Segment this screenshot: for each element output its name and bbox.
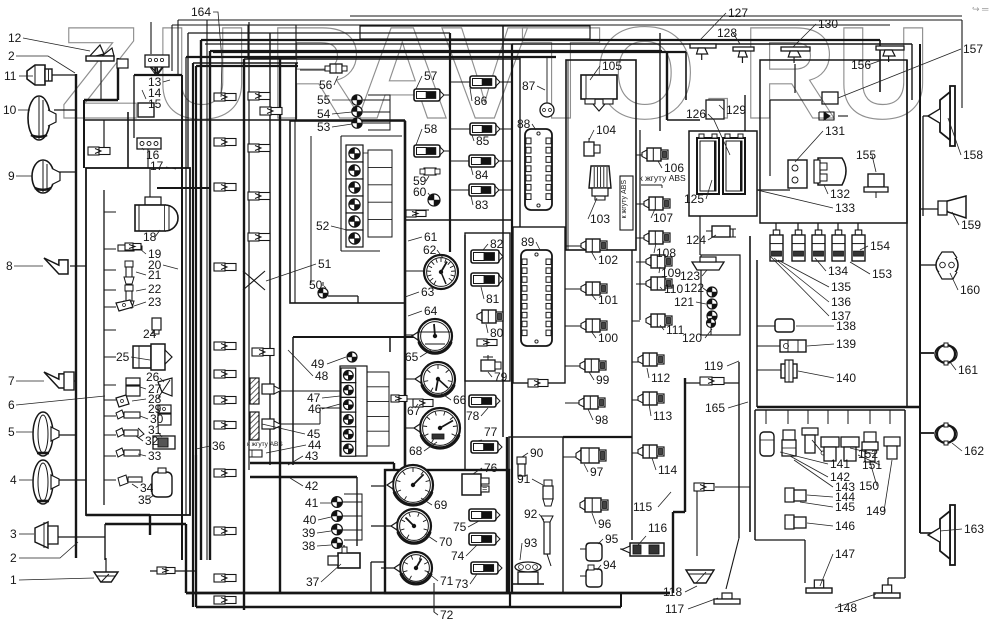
connector bbox=[248, 144, 270, 152]
svg-text:8: 8 bbox=[6, 259, 13, 273]
label 134 bbox=[815, 258, 848, 278]
svg-text:160: 160 bbox=[960, 283, 980, 297]
lamp 50 bbox=[318, 282, 328, 298]
gauge 70 bbox=[391, 509, 431, 543]
svg-text:146: 146 bbox=[835, 519, 855, 533]
label 47 bbox=[307, 391, 340, 405]
label 113 bbox=[649, 404, 672, 423]
label 117 bbox=[665, 598, 718, 616]
label 38 bbox=[302, 539, 331, 553]
connector 16 bbox=[137, 138, 161, 149]
svg-text:94: 94 bbox=[603, 558, 617, 572]
label 76 bbox=[473, 461, 498, 475]
label 140 bbox=[798, 371, 856, 385]
svg-text:56: 56 bbox=[319, 78, 333, 92]
sensor 143 bbox=[802, 428, 825, 455]
svg-text:48: 48 bbox=[315, 369, 329, 383]
label 18 bbox=[143, 230, 160, 244]
label 116 bbox=[638, 521, 667, 545]
switch 73 bbox=[471, 562, 502, 574]
label 24 bbox=[143, 327, 157, 341]
relay 119 fuse bbox=[700, 377, 724, 385]
connector 162 bbox=[935, 423, 957, 445]
label 55 bbox=[317, 93, 352, 107]
gauge 71 bbox=[394, 552, 432, 584]
label 124 bbox=[686, 233, 716, 247]
lamp 60 bbox=[428, 194, 440, 206]
label 46 bbox=[308, 402, 340, 416]
washer jet bbox=[733, 47, 754, 63]
lamp 12 bbox=[86, 45, 114, 75]
svg-text:12: 12 bbox=[8, 31, 22, 45]
fuse bbox=[528, 379, 548, 387]
svg-text:57: 57 bbox=[424, 69, 438, 83]
connector bbox=[214, 93, 236, 101]
label 97 bbox=[584, 464, 604, 479]
switch 85 bbox=[470, 123, 500, 135]
fuse 1 bbox=[792, 230, 805, 261]
label 73 bbox=[455, 574, 477, 591]
svg-text:159: 159 bbox=[961, 218, 981, 232]
label 61 bbox=[408, 230, 438, 244]
svg-text:96: 96 bbox=[598, 517, 612, 531]
fuse 3 bbox=[832, 230, 845, 261]
svg-text:25: 25 bbox=[116, 350, 130, 364]
switch 30 bbox=[116, 410, 140, 419]
svg-text:117: 117 bbox=[665, 602, 684, 616]
svg-text:99: 99 bbox=[596, 373, 610, 387]
label 118 bbox=[663, 585, 697, 599]
label 70 bbox=[425, 534, 453, 549]
sensor 114 bbox=[638, 445, 664, 458]
svg-text:9: 9 bbox=[8, 169, 15, 183]
label 127 bbox=[700, 6, 748, 40]
gauge 68 speedometer bbox=[414, 408, 460, 448]
battery 125b bbox=[723, 134, 745, 194]
svg-text:132: 132 bbox=[830, 187, 850, 201]
svg-text:к жгуту ABS: к жгуту ABS bbox=[639, 173, 686, 183]
svg-text:156: 156 bbox=[851, 58, 871, 72]
relay 15 bbox=[138, 103, 154, 117]
label 40 bbox=[303, 513, 331, 527]
svg-text:4: 4 bbox=[10, 473, 17, 487]
label 130 bbox=[793, 17, 838, 47]
svg-text:75: 75 bbox=[453, 520, 467, 534]
svg-text:53: 53 bbox=[317, 120, 331, 134]
hatched connector 45 bbox=[250, 412, 280, 440]
label 159 bbox=[952, 212, 981, 232]
svg-text:149: 149 bbox=[866, 504, 886, 518]
label 91 bbox=[517, 472, 543, 486]
sensor 91 bbox=[543, 480, 553, 506]
plug 3 bbox=[35, 522, 58, 548]
label 29 bbox=[148, 402, 162, 416]
unit 105 bbox=[581, 75, 617, 111]
label 67 bbox=[407, 404, 421, 418]
svg-text:130: 130 bbox=[818, 17, 838, 31]
switch 82 bbox=[471, 250, 503, 263]
svg-text:47: 47 bbox=[307, 391, 321, 405]
label 145 bbox=[800, 500, 855, 514]
switch 84 bbox=[469, 155, 499, 167]
sensor 80 bbox=[477, 306, 503, 323]
relay 131 bbox=[788, 160, 807, 188]
motor 132 bbox=[814, 158, 846, 185]
pump 25 bbox=[133, 344, 172, 370]
svg-text:162: 162 bbox=[964, 444, 984, 458]
svg-text:6: 6 bbox=[8, 398, 15, 412]
svg-text:127: 127 bbox=[728, 6, 748, 20]
fuse 67b bbox=[413, 399, 433, 407]
switch 75 bbox=[469, 509, 500, 521]
label 108 bbox=[654, 243, 676, 260]
ABS connector 44 bbox=[247, 441, 283, 457]
label 121 bbox=[674, 295, 706, 309]
svg-text:102: 102 bbox=[598, 253, 618, 267]
reservoir 35 bbox=[152, 468, 172, 497]
sensor 152 bbox=[841, 437, 859, 461]
hatched connector 47 bbox=[250, 378, 280, 404]
sensor 108 bbox=[644, 231, 670, 244]
label 52 bbox=[316, 219, 347, 233]
label 151 bbox=[858, 455, 882, 472]
svg-text:79: 79 bbox=[494, 370, 508, 384]
svg-text:93: 93 bbox=[524, 536, 538, 550]
label 92 bbox=[524, 507, 544, 521]
svg-text:141: 141 bbox=[830, 457, 850, 471]
svg-text:90: 90 bbox=[530, 446, 544, 460]
svg-text:52: 52 bbox=[316, 219, 330, 233]
connector bbox=[214, 263, 236, 271]
connector bbox=[214, 342, 236, 350]
sensor 107 bbox=[644, 197, 670, 210]
label 78 bbox=[466, 408, 488, 423]
label 98 bbox=[588, 409, 609, 427]
svg-text:148: 148 bbox=[837, 601, 857, 615]
svg-text:54: 54 bbox=[317, 107, 331, 121]
battery 125a bbox=[697, 134, 719, 194]
svg-text:U: U bbox=[155, 0, 250, 146]
label 64 bbox=[408, 304, 438, 318]
watermark ZURAVTO.RU bbox=[60, 0, 931, 146]
label 49 bbox=[311, 357, 346, 371]
label 60 bbox=[413, 185, 431, 199]
speaker 163 bbox=[928, 505, 955, 565]
svg-text:к жгуту ABS: к жгуту ABS bbox=[247, 441, 283, 448]
label 99 bbox=[589, 372, 610, 387]
fuse 0 bbox=[770, 230, 783, 261]
gauge 65 ammeter bbox=[412, 319, 452, 353]
sensor 104 bbox=[584, 138, 600, 156]
svg-text:49: 49 bbox=[311, 357, 325, 371]
label 35 bbox=[138, 493, 154, 507]
fuse bbox=[694, 483, 714, 491]
label 125 bbox=[684, 180, 712, 206]
horn 159 bbox=[938, 196, 966, 218]
svg-text:155: 155 bbox=[856, 148, 876, 162]
connector bbox=[477, 339, 497, 346]
label 157 bbox=[838, 42, 983, 98]
speaker 158 bbox=[928, 86, 955, 146]
label 93 bbox=[520, 536, 538, 560]
label 87 bbox=[522, 79, 545, 93]
switch 81 bbox=[471, 273, 503, 286]
label 45 bbox=[262, 424, 321, 441]
svg-text:110: 110 bbox=[664, 282, 683, 296]
label 43 bbox=[288, 449, 319, 465]
label 81 bbox=[481, 287, 500, 306]
connector strip 88 bbox=[525, 129, 552, 210]
switch 57 bbox=[414, 89, 444, 101]
svg-text:154: 154 bbox=[870, 239, 890, 253]
label 139 bbox=[807, 337, 856, 351]
label 89 bbox=[521, 235, 540, 250]
svg-text:42: 42 bbox=[305, 479, 319, 493]
svg-text:119: 119 bbox=[704, 359, 723, 373]
label 57 bbox=[416, 69, 438, 89]
connector bbox=[248, 192, 270, 200]
label 107 bbox=[651, 209, 673, 225]
svg-text:86: 86 bbox=[474, 94, 488, 108]
connector bbox=[214, 574, 236, 582]
module 95 bbox=[580, 543, 602, 561]
label 19 bbox=[140, 247, 162, 261]
sensor 22 bbox=[124, 285, 134, 308]
label 95 bbox=[598, 532, 619, 546]
label 148 bbox=[835, 594, 876, 615]
svg-text:118: 118 bbox=[663, 585, 682, 599]
svg-text:☰: ☰ bbox=[482, 487, 487, 494]
svg-text:157: 157 bbox=[963, 42, 983, 56]
pump 93 bbox=[512, 562, 544, 584]
sensor 149 bbox=[884, 437, 900, 459]
label 106 bbox=[658, 161, 684, 175]
label 150 bbox=[859, 462, 879, 493]
label 10 bbox=[3, 103, 30, 117]
svg-text:91: 91 bbox=[517, 472, 531, 486]
label 147 bbox=[820, 547, 855, 586]
ground 148 bbox=[874, 585, 900, 598]
svg-text:120: 120 bbox=[682, 331, 702, 345]
svg-text:33: 33 bbox=[148, 449, 162, 463]
connector 160 bbox=[936, 252, 958, 279]
connector bbox=[252, 348, 274, 356]
switch 83 bbox=[469, 184, 499, 196]
svg-text:108: 108 bbox=[656, 246, 676, 260]
label 33 bbox=[138, 449, 162, 463]
svg-text:5: 5 bbox=[8, 425, 15, 439]
label 132 bbox=[824, 185, 850, 201]
switch 77 bbox=[471, 441, 502, 453]
switch 24 bbox=[152, 318, 161, 334]
svg-text:114: 114 bbox=[658, 463, 677, 477]
lamp bbox=[707, 311, 717, 321]
svg-text:39: 39 bbox=[302, 526, 316, 540]
label 36 bbox=[196, 439, 226, 453]
label 54 bbox=[317, 107, 352, 121]
label 80 bbox=[486, 324, 504, 340]
svg-text:139: 139 bbox=[836, 337, 856, 351]
sensor 112 bbox=[638, 353, 664, 366]
label 136 bbox=[774, 258, 851, 309]
label 79 bbox=[488, 370, 508, 384]
svg-text:73: 73 bbox=[455, 577, 469, 591]
svg-text:104: 104 bbox=[596, 123, 616, 137]
label 1 bbox=[10, 573, 94, 587]
label 20 bbox=[148, 258, 178, 272]
relay 31 bbox=[153, 436, 175, 449]
label 58 bbox=[416, 122, 438, 145]
label 26 bbox=[146, 370, 164, 384]
sensor 21 bbox=[124, 261, 134, 284]
svg-text:165: 165 bbox=[705, 401, 725, 415]
fuse 19 bbox=[118, 245, 142, 251]
svg-text:98: 98 bbox=[595, 413, 609, 427]
label 122 bbox=[684, 281, 707, 295]
svg-text:84: 84 bbox=[475, 168, 489, 182]
label 44 bbox=[266, 438, 322, 453]
headlamp 10 bbox=[28, 96, 56, 140]
svg-text:50: 50 bbox=[309, 278, 323, 292]
label 83 bbox=[471, 196, 489, 212]
svg-text:72: 72 bbox=[440, 608, 454, 622]
sensor 142 bbox=[782, 430, 796, 456]
label 155 bbox=[856, 148, 876, 172]
connector bbox=[125, 243, 141, 250]
sensor 113 bbox=[638, 392, 664, 405]
fuse 4 bbox=[852, 230, 865, 261]
lamp cluster 38-41 bbox=[332, 494, 362, 548]
label 96 bbox=[592, 513, 612, 531]
sensor 79 bbox=[481, 355, 501, 371]
sensor 116 bbox=[622, 543, 664, 556]
svg-text:2: 2 bbox=[8, 49, 15, 63]
gauge 62 voltmeter bbox=[424, 255, 458, 289]
svg-text:71: 71 bbox=[440, 574, 454, 588]
lamp 55 bbox=[352, 95, 362, 105]
svg-text:136: 136 bbox=[831, 295, 851, 309]
svg-text:77: 77 bbox=[484, 425, 498, 439]
sensor 124 bbox=[706, 226, 736, 237]
svg-text:92: 92 bbox=[524, 507, 538, 521]
svg-text:36: 36 bbox=[212, 439, 226, 453]
label 138 bbox=[796, 319, 856, 333]
svg-text:134: 134 bbox=[828, 264, 848, 278]
connector bbox=[157, 567, 175, 574]
connector bbox=[214, 370, 236, 378]
canister 27 bbox=[126, 378, 140, 396]
label 84 bbox=[471, 167, 489, 182]
svg-text:76: 76 bbox=[484, 461, 498, 475]
label 90 bbox=[522, 446, 544, 460]
svg-text:105: 105 bbox=[602, 59, 622, 73]
label 154 bbox=[860, 239, 890, 253]
label 153 bbox=[850, 262, 892, 281]
label 5 bbox=[8, 425, 33, 439]
connector bbox=[214, 183, 236, 191]
relay 140 bbox=[781, 360, 797, 382]
label 41 bbox=[305, 496, 331, 510]
sensor 100 bbox=[581, 319, 607, 332]
canister 29 bbox=[158, 405, 171, 425]
label 86 bbox=[470, 88, 488, 108]
sensor 120 bbox=[707, 319, 716, 336]
sensor 150 bbox=[862, 432, 878, 462]
svg-text:109: 109 bbox=[661, 266, 681, 280]
label 129 bbox=[719, 103, 746, 117]
relay 129 bbox=[706, 100, 724, 119]
sensor 90 bbox=[517, 457, 526, 476]
label 131 bbox=[795, 124, 845, 162]
switch 32 bbox=[116, 428, 144, 438]
label 56 bbox=[319, 76, 338, 92]
svg-text:161: 161 bbox=[958, 363, 978, 377]
label 164 bbox=[191, 5, 222, 97]
svg-text:.: . bbox=[700, 0, 736, 146]
label 156 bbox=[851, 58, 882, 72]
svg-text:55: 55 bbox=[317, 93, 331, 107]
svg-text:153: 153 bbox=[872, 267, 892, 281]
label 7 bbox=[8, 374, 44, 388]
sensor 99 bbox=[580, 359, 606, 372]
svg-text:23: 23 bbox=[148, 295, 162, 309]
svg-text:66: 66 bbox=[453, 393, 467, 407]
sensor 103 bbox=[589, 166, 611, 200]
svg-text:35: 35 bbox=[138, 493, 152, 507]
fuse 59 bbox=[420, 168, 440, 175]
sensor 144 145 bbox=[785, 488, 806, 502]
svg-text:↪ ═: ↪ ═ bbox=[972, 4, 989, 14]
label 71 bbox=[427, 572, 454, 588]
fuse 56 bbox=[325, 64, 347, 73]
svg-text:37: 37 bbox=[306, 575, 320, 589]
label 88 bbox=[517, 117, 536, 131]
svg-text:18: 18 bbox=[143, 230, 157, 244]
valve 28 bbox=[116, 395, 129, 407]
washer jet 128 bbox=[690, 44, 716, 60]
svg-text:126: 126 bbox=[686, 107, 706, 121]
connector bbox=[248, 92, 270, 100]
label 158 bbox=[948, 118, 983, 162]
svg-text:10: 10 bbox=[3, 103, 17, 117]
ground 1 bbox=[94, 572, 118, 582]
connector bbox=[214, 469, 236, 477]
svg-text:81: 81 bbox=[486, 292, 500, 306]
label 31 bbox=[148, 423, 162, 437]
svg-text:158: 158 bbox=[963, 148, 983, 162]
label 59 bbox=[413, 174, 429, 188]
label 109 bbox=[659, 266, 681, 280]
sensor 96 bbox=[580, 498, 608, 512]
label 105 bbox=[590, 59, 622, 80]
svg-text:24: 24 bbox=[143, 327, 157, 341]
relay 155 bbox=[864, 174, 888, 198]
label 4 bbox=[10, 473, 33, 487]
label 120 bbox=[682, 329, 712, 345]
label 30 bbox=[140, 412, 164, 426]
gauge 66 bbox=[415, 362, 455, 396]
svg-text:112: 112 bbox=[651, 371, 670, 385]
relay 138 bbox=[775, 319, 794, 332]
connector 87 bbox=[540, 57, 554, 117]
label 62 bbox=[423, 243, 443, 258]
svg-text:2: 2 bbox=[10, 551, 17, 565]
relay block 52 bbox=[346, 145, 392, 247]
horn 8 bbox=[44, 258, 68, 274]
label 17 bbox=[150, 159, 176, 173]
sensor 98 bbox=[579, 396, 605, 409]
svg-text:15: 15 bbox=[148, 97, 162, 111]
